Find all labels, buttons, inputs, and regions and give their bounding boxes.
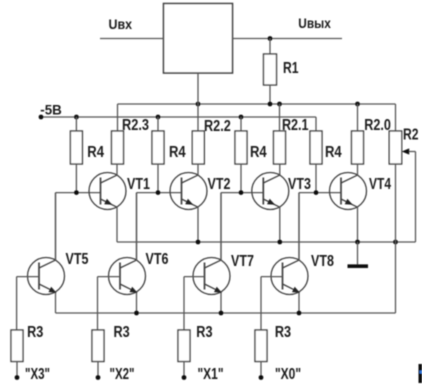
wire Uvyh output xyxy=(233,38,343,40)
resistor R2 (variable) xyxy=(389,131,402,164)
svg-text:"X3": "X3" xyxy=(25,366,50,383)
svg-text:R2.1: R2.1 xyxy=(282,117,309,134)
wiper arrow of R2 xyxy=(406,151,416,153)
resistor R2.2 xyxy=(192,131,204,164)
junction R2 bottom xyxy=(393,240,398,245)
wire VT2 base xyxy=(137,192,182,194)
svg-text:VT8: VT8 xyxy=(311,253,334,270)
svg-text:R3: R3 xyxy=(196,324,212,341)
wire X0 stub xyxy=(260,362,262,378)
wire VT6 base xyxy=(98,276,121,278)
svg-text:R2.3: R2.3 xyxy=(122,117,149,134)
svg-text:R4: R4 xyxy=(325,144,342,161)
wire bottom emitter bus xyxy=(56,312,396,314)
wire common emitter bus xyxy=(117,241,416,243)
svg-text:VT6: VT6 xyxy=(146,251,169,268)
svg-text:VT3: VT3 xyxy=(288,176,311,193)
svg-text:R3: R3 xyxy=(114,324,130,341)
junction VT4 emitter and ground xyxy=(355,240,360,245)
wire R4.3 bottom stub xyxy=(240,164,242,193)
junction R2.1 to bus xyxy=(277,102,282,107)
junction R4.4 to VT4 base xyxy=(314,190,319,195)
svg-text:-5В: -5В xyxy=(40,102,62,118)
wire VT8 base to R3 xyxy=(260,277,262,330)
wire VT2 base to VT6 collector xyxy=(136,193,138,261)
svg-text:R3: R3 xyxy=(27,324,43,341)
wire ground stub xyxy=(357,242,359,265)
node -5V terminal xyxy=(39,115,44,120)
svg-text:R4: R4 xyxy=(250,144,267,161)
transistor VT6 xyxy=(109,258,146,295)
svg-text:Uвх: Uвх xyxy=(109,16,133,32)
svg-text:VT1: VT1 xyxy=(127,176,150,193)
wire R2.1 top stub xyxy=(279,104,281,131)
wire X2 stub xyxy=(97,362,99,378)
resistor R3 (third) xyxy=(178,330,190,362)
svg-text:"X0": "X0" xyxy=(275,366,301,383)
svg-text:VT7: VT7 xyxy=(231,253,254,270)
wire R4.4 top stub xyxy=(315,117,317,131)
junction VT8 emitter xyxy=(297,311,302,316)
transistor VT8 xyxy=(271,258,308,295)
svg-text:R3: R3 xyxy=(275,324,291,341)
svg-text:R2.0: R2.0 xyxy=(364,117,391,134)
wire upper bus (summing node) xyxy=(118,103,396,105)
svg-text:"X1": "X1" xyxy=(198,366,224,383)
input block (converter box) xyxy=(164,4,233,74)
junction VT3 emitter xyxy=(277,240,282,245)
wire R2 wiper down xyxy=(415,152,417,243)
wire R4.4 bottom stub xyxy=(315,164,317,193)
wire VT5 base to R3 xyxy=(16,277,18,330)
wire VT4 base xyxy=(299,192,341,194)
node X3 terminal xyxy=(15,375,20,380)
svg-text:R4: R4 xyxy=(87,144,104,161)
resistor R4 (first) xyxy=(70,131,82,164)
svg-text:Uвых: Uвых xyxy=(298,15,331,31)
wire VT7 base xyxy=(184,276,205,278)
resistor R2.1 xyxy=(274,131,286,164)
resistor R3 (second) xyxy=(92,330,104,362)
junction R4.3 to VT3 base xyxy=(239,190,244,195)
wire VT3 base to VT7 collector xyxy=(220,193,222,261)
junction R4.1 to VT1 base xyxy=(74,190,79,195)
svg-text:R2.2: R2.2 xyxy=(204,118,231,135)
junction VT2 emitter xyxy=(196,240,201,245)
svg-text:R1: R1 xyxy=(283,60,299,77)
junction box output to bus xyxy=(196,102,201,107)
svg-text:VT4: VT4 xyxy=(369,176,391,193)
wire VT4 base to VT8 collector xyxy=(298,193,300,261)
wire Uvx input xyxy=(100,38,164,40)
node X1 terminal xyxy=(182,375,187,380)
wire R1 top stub xyxy=(269,39,271,55)
transistor VT4 xyxy=(330,173,367,210)
wire R4.3 top stub xyxy=(240,117,242,131)
resistor R3 (fourth) xyxy=(255,330,267,362)
resistor R4 (third) xyxy=(235,131,247,164)
wire R2 bottom to bottom bus xyxy=(395,164,397,313)
resistor R1 xyxy=(264,54,277,85)
resistor R2.0 xyxy=(352,131,364,164)
wire R4.1 top stub xyxy=(75,117,77,131)
svg-text:R4: R4 xyxy=(169,144,186,161)
wire R4.2 top stub xyxy=(157,117,159,131)
corner artifact block xyxy=(419,364,422,383)
wire -5V bus xyxy=(41,116,316,118)
wire VT1 base xyxy=(56,192,101,194)
resistor R2.3 xyxy=(112,131,124,164)
wire R2.0 top stub xyxy=(357,104,359,131)
ground xyxy=(348,264,369,268)
junction R1 to bus xyxy=(268,102,273,107)
wire box bottom to R2.2 xyxy=(197,73,199,131)
wire R2 top stub xyxy=(395,104,397,131)
resistor R3 (first) xyxy=(11,330,23,362)
junction output node xyxy=(268,36,273,41)
node X0 terminal xyxy=(259,375,264,380)
node X2 terminal xyxy=(96,375,101,380)
junction VT6 emitter xyxy=(134,311,139,316)
resistor R4 (fourth) xyxy=(310,131,322,164)
wire X3 stub xyxy=(16,362,18,378)
junction R2.0 to bus xyxy=(355,102,360,107)
transistor VT1 xyxy=(89,173,126,210)
wire VT6 base to R3 xyxy=(97,277,99,330)
wire R1 bottom stub xyxy=(269,85,271,104)
wire R2.3 top stub xyxy=(117,104,119,131)
junction R4.2 to -5V xyxy=(156,115,161,120)
transistor VT7 xyxy=(193,258,230,295)
junction R4.2 to VT2 base xyxy=(156,190,161,195)
svg-text:"X2": "X2" xyxy=(110,366,135,383)
wire VT8 base xyxy=(261,276,283,278)
wire VT3 base xyxy=(221,192,263,194)
svg-text:VT2: VT2 xyxy=(208,176,231,193)
wire R4.1 bottom stub xyxy=(75,164,77,193)
junction R4.1 to -5V xyxy=(74,115,79,120)
wire VT7 base to R3 xyxy=(183,277,185,330)
transistor VT5 xyxy=(28,258,65,295)
junction VT7 emitter xyxy=(219,311,224,316)
svg-text:R2: R2 xyxy=(403,127,419,144)
wire R4.2 bottom stub xyxy=(157,164,159,193)
resistor R4 (second) xyxy=(152,131,164,164)
transistor VT2 xyxy=(170,173,207,210)
wire X1 stub xyxy=(183,362,185,378)
svg-text:VT5: VT5 xyxy=(66,251,89,268)
transistor VT3 xyxy=(252,173,289,210)
wire VT1 base to VT5 collector xyxy=(55,193,57,261)
junction R4.3 to -5V xyxy=(239,115,244,120)
wire VT5 base xyxy=(17,276,39,278)
